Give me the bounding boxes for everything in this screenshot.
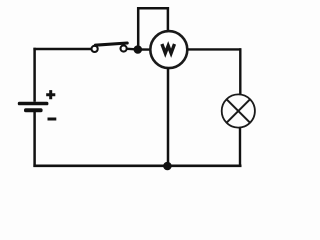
switch S1: blade bbox=[95, 43, 127, 45]
wire: lamp bottom to bottom-right corner bbox=[239, 128, 241, 167]
wire: top-left horizontal from battery to switch bbox=[33, 48, 91, 50]
switch S1: left terminal bbox=[92, 46, 98, 52]
wire: right vertical down to lamp bbox=[239, 48, 241, 94]
label: W (wattmeter) bbox=[162, 44, 175, 53]
wire: wattmeter voltage-coil loop bbox=[138, 8, 168, 49]
label: - (battery negative) bbox=[48, 118, 57, 121]
battery B1: short negative plate bbox=[24, 108, 43, 112]
wire: wattmeter bottom to bottom wire bbox=[167, 68, 170, 166]
lamp DS1: circle bbox=[222, 94, 255, 127]
wire: junction to wattmeter left bbox=[138, 48, 150, 50]
wire: wattmeter right to top-right corner bbox=[188, 48, 241, 50]
wire: switch right terminal to junction bbox=[127, 48, 138, 51]
switch S1: right terminal bbox=[121, 45, 127, 51]
battery B1: long positive plate bbox=[18, 102, 49, 106]
node: junction at wattmeter input bbox=[134, 45, 143, 54]
wattmeter M1: circle bbox=[150, 31, 187, 68]
wire: bottom horizontal return bbox=[33, 165, 241, 168]
wire: left vertical (battery branch) bbox=[33, 48, 36, 167]
node: junction on bottom wire bbox=[163, 162, 172, 171]
label: + (battery positive) bbox=[46, 90, 55, 99]
lamp DS1: X cross bbox=[227, 99, 250, 122]
